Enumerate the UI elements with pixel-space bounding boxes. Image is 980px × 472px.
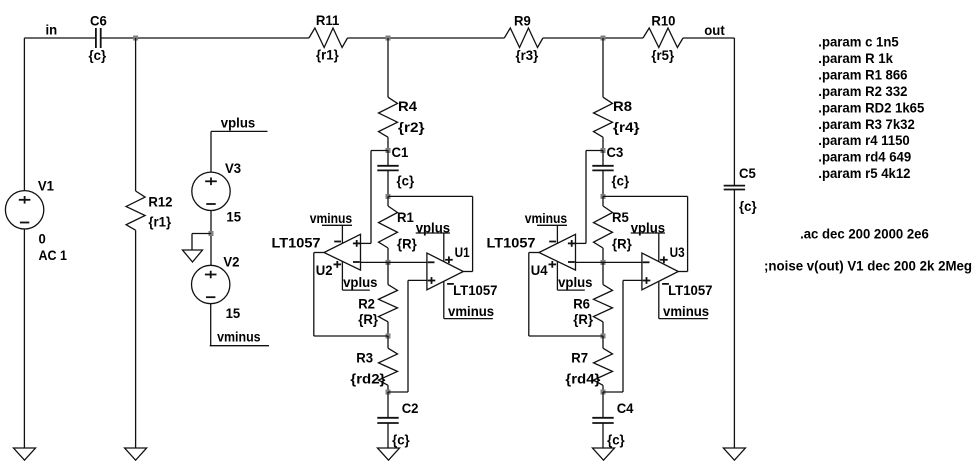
wire: [603, 280, 642, 392]
capacitor C6: [89, 13, 107, 64]
resistor R3: [350, 336, 397, 392]
svg-text:{R}: {R}: [612, 235, 632, 251]
svg-text:R5: R5: [612, 209, 629, 225]
wire: [602, 38, 604, 97]
resistor R4: [379, 97, 426, 137]
junction: [209, 231, 214, 236]
svg-text:U1: U1: [455, 244, 470, 260]
wire: [388, 196, 473, 271]
node in: [46, 22, 58, 38]
svg-text:R10: R10: [651, 13, 675, 29]
node vminus: [659, 303, 709, 319]
svg-text:.param R1 866: .param R1 866: [818, 66, 907, 82]
svg-text:.param r4 1150: .param r4 1150: [818, 132, 910, 148]
ground: [378, 448, 400, 460]
svg-text:R3: R3: [356, 350, 373, 366]
resistor R8: [594, 97, 641, 137]
svg-text:vplus: vplus: [558, 274, 593, 290]
svg-text:R11: R11: [316, 12, 340, 28]
resistor R9: [504, 13, 543, 63]
svg-text:{r4}: {r4}: [613, 119, 640, 135]
svg-text:.param rd4 649: .param rd4 649: [818, 149, 911, 165]
svg-text:.param c 1n5: .param c 1n5: [818, 34, 899, 50]
svg-text:vminus: vminus: [663, 303, 709, 319]
capacitor C5: [724, 165, 757, 214]
svg-text:out: out: [704, 22, 725, 38]
svg-text:15: 15: [226, 209, 241, 225]
wire: [210, 131, 212, 172]
svg-text:U2: U2: [316, 262, 333, 278]
svg-text:R7: R7: [571, 350, 588, 366]
svg-text:R9: R9: [514, 13, 531, 29]
svg-text:C2: C2: [402, 400, 419, 416]
op-amp U1: [427, 244, 470, 290]
junction: [386, 334, 391, 339]
node vplus: [416, 220, 451, 236]
svg-text:R8: R8: [613, 98, 632, 114]
op-amp U2: [316, 234, 361, 278]
svg-text:LT1057: LT1057: [453, 282, 498, 298]
wire: [361, 151, 389, 244]
junction: [601, 36, 606, 41]
svg-text:.param r5 4k12: .param r5 4k12: [818, 165, 910, 181]
svg-text:{c}: {c}: [739, 198, 757, 214]
svg-text:{c}: {c}: [607, 431, 625, 447]
node vminus: [525, 210, 568, 226]
svg-text:{R}: {R}: [358, 311, 378, 327]
node vminus: [444, 303, 494, 319]
svg-text:C6: C6: [90, 13, 107, 29]
junction: [386, 194, 391, 199]
svg-text:;noise v(out) V1 dec 200 2k 2M: ;noise v(out) V1 dec 200 2k 2Meg: [764, 258, 972, 274]
svg-text:{r1}: {r1}: [316, 46, 339, 62]
wire: [101, 37, 309, 39]
ground: [14, 448, 36, 460]
ground: [125, 448, 147, 460]
node out: [704, 22, 725, 38]
resistor R7: [565, 336, 612, 392]
svg-text:{c}: {c}: [397, 173, 415, 189]
capacitor C3: [592, 144, 629, 196]
svg-text:{R}: {R}: [573, 311, 593, 327]
op-amp U3: [642, 244, 685, 290]
wire: [210, 211, 212, 266]
svg-text:0: 0: [39, 231, 46, 247]
svg-text:LT1057: LT1057: [272, 235, 321, 251]
svg-text:vminus: vminus: [217, 329, 261, 345]
wire: [348, 37, 505, 39]
directive .ac: [800, 225, 929, 241]
junction: [133, 36, 138, 41]
wire: [683, 37, 734, 39]
resistor R1: [379, 196, 418, 262]
node vplus: [211, 115, 268, 132]
voltage source V2: [192, 254, 241, 321]
wire: [443, 281, 445, 318]
junction: [386, 390, 391, 395]
capacitor C2: [377, 392, 418, 448]
wire: [658, 233, 660, 262]
wire: [135, 38, 137, 191]
resistor R10: [643, 13, 683, 63]
wire: [529, 253, 603, 337]
directive .param block: [818, 34, 924, 181]
svg-text:.param RD2 1k65: .param RD2 1k65: [818, 99, 924, 115]
svg-text:vplus: vplus: [221, 115, 256, 131]
node vplus: [342, 274, 377, 290]
resistor R2: [358, 262, 397, 336]
resistor R6: [573, 262, 612, 336]
junction: [386, 36, 391, 41]
junction: [386, 148, 391, 153]
wire: [733, 38, 735, 186]
wire: [387, 38, 389, 97]
wire: [556, 261, 558, 290]
directive ;noise: [764, 258, 972, 274]
svg-text:V2: V2: [223, 254, 239, 270]
wire: [576, 151, 604, 244]
op-amp U4: [531, 234, 576, 278]
wire: [387, 137, 389, 150]
svg-text:LT1057: LT1057: [487, 235, 536, 251]
wire: [192, 234, 211, 251]
svg-text:.param R2 332: .param R2 332: [818, 83, 907, 99]
node vminus: [210, 329, 269, 346]
svg-text:{c}: {c}: [612, 173, 630, 189]
svg-text:R2: R2: [358, 296, 375, 312]
node vplus: [557, 274, 592, 290]
wire: [543, 37, 643, 39]
ground: [593, 448, 615, 460]
svg-text:{R}: {R}: [397, 235, 417, 251]
svg-text:C5: C5: [739, 165, 756, 181]
ground: [183, 250, 203, 262]
svg-text:vplus: vplus: [343, 274, 378, 290]
junction: [601, 194, 606, 199]
wire: [602, 137, 604, 150]
svg-text:{rd2}: {rd2}: [350, 371, 386, 387]
wire: [576, 261, 642, 263]
svg-text:AC 1: AC 1: [39, 247, 68, 263]
ground: [723, 448, 745, 460]
svg-text:R12: R12: [148, 194, 172, 210]
junction: [601, 334, 606, 339]
svg-text:{r1}: {r1}: [148, 213, 171, 229]
svg-text:vminus: vminus: [525, 210, 568, 226]
node vplus: [631, 220, 666, 236]
wire: [23, 229, 25, 448]
resistor R12: [126, 191, 173, 230]
svg-text:R6: R6: [573, 296, 590, 312]
svg-text:LT1057: LT1057: [668, 282, 713, 298]
svg-text:15: 15: [226, 305, 241, 321]
svg-text:V3: V3: [225, 160, 241, 176]
svg-text:{c}: {c}: [89, 47, 107, 63]
svg-text:in: in: [46, 22, 58, 38]
wire: [210, 304, 212, 346]
node vminus: [310, 210, 353, 226]
wire: [361, 261, 427, 263]
wire: [556, 225, 558, 243]
svg-text:.param R3 7k32: .param R3 7k32: [818, 116, 915, 132]
wire: [388, 280, 427, 392]
svg-text:vminus: vminus: [448, 303, 494, 319]
svg-text:{r2}: {r2}: [398, 119, 425, 135]
svg-text:.param R 1k: .param R 1k: [818, 50, 893, 66]
svg-text:{rd4}: {rd4}: [565, 371, 601, 387]
wire: [314, 253, 388, 337]
svg-text:R4: R4: [398, 98, 417, 114]
wire: [341, 261, 343, 290]
junction: [601, 260, 606, 265]
voltage source V1: [5, 177, 67, 263]
svg-text:U3: U3: [670, 244, 685, 260]
svg-text:C4: C4: [617, 400, 634, 416]
svg-text:U4: U4: [531, 262, 548, 278]
wire: [135, 230, 137, 448]
svg-text:{r3}: {r3}: [516, 47, 539, 63]
label LT1057: [272, 235, 321, 251]
svg-text:{c}: {c}: [392, 431, 410, 447]
wire: [658, 281, 660, 318]
voltage source V3: [192, 160, 242, 225]
junction: [601, 148, 606, 153]
wire: [443, 233, 445, 262]
resistor R11: [309, 12, 348, 63]
wire: [23, 38, 25, 191]
capacitor C1: [377, 144, 414, 196]
svg-text:R1: R1: [397, 209, 414, 225]
junction: [601, 390, 606, 395]
capacitor C4: [592, 392, 633, 448]
label LT1057: [453, 282, 498, 298]
wire: [733, 190, 735, 449]
wire: [24, 37, 96, 39]
label LT1057: [487, 235, 536, 251]
wire: [341, 225, 343, 243]
svg-text:C3: C3: [607, 144, 624, 160]
svg-text:C1: C1: [392, 144, 409, 160]
junction: [386, 260, 391, 265]
svg-text:V1: V1: [38, 177, 54, 193]
resistor R5: [594, 196, 633, 262]
svg-text:vminus: vminus: [310, 210, 353, 226]
svg-text:.ac dec 200 2000 2e6: .ac dec 200 2000 2e6: [800, 225, 929, 241]
wire: [603, 196, 688, 271]
svg-text:{r5}: {r5}: [651, 47, 674, 63]
label LT1057: [668, 282, 713, 298]
